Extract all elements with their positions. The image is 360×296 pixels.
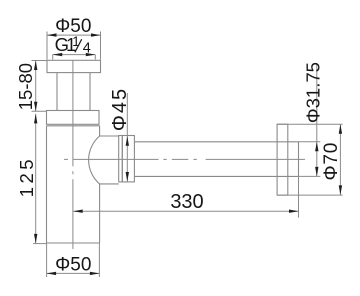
svg-text:125: 125 bbox=[16, 156, 37, 197]
nut (bottle top nut) bbox=[47, 111, 100, 125]
dim 15-80 ext lines bbox=[32, 61, 47, 112]
dim Phi45 line bbox=[126, 93, 128, 182]
wall flange bbox=[277, 124, 288, 195]
arrowheads Phi70 bbox=[339, 124, 342, 134]
dim G1-1/4 line bbox=[53, 55, 96, 60]
dim Phi31.75 ext lines bbox=[299, 142, 321, 177]
svg-text:Φ31.75: Φ31.75 bbox=[302, 62, 323, 123]
horizontal centerline bbox=[64, 158, 305, 160]
arrowheads Phi45 bbox=[126, 136, 129, 146]
threaded inlet pipe bbox=[57, 73, 90, 111]
dim 125 line bbox=[35, 114, 37, 244]
dim Phi70 line bbox=[339, 124, 341, 195]
bottle body bbox=[47, 126, 100, 243]
vertical centerline bbox=[72, 60, 74, 249]
horizontal pipe bbox=[134, 142, 298, 177]
dim Phi50 top ext lines bbox=[47, 32, 101, 60]
dim 330 line bbox=[73, 210, 298, 212]
dim Phi50 bottom ext lines bbox=[47, 243, 100, 277]
svg-text:15-80: 15-80 bbox=[15, 63, 36, 110]
dim Phi31.75 line bbox=[316, 64, 318, 176]
arrowheads Phi50 bottom bbox=[47, 272, 57, 275]
label G 1 1/4 bbox=[55, 34, 91, 57]
arrowheads 125 bbox=[34, 114, 37, 124]
outlet washer ring bbox=[119, 136, 123, 182]
dim 330 right ext line bbox=[298, 177, 300, 218]
dim Phi50 bottom line bbox=[47, 272, 100, 274]
svg-text:1: 1 bbox=[72, 34, 80, 49]
svg-text:4: 4 bbox=[83, 40, 91, 56]
arrowheads 330 bbox=[73, 210, 83, 213]
arrowheads Phi50 top bbox=[47, 33, 57, 36]
dim 15-80 line bbox=[35, 61, 37, 112]
arrowheads 15-80 bbox=[34, 61, 37, 71]
arrowheads Phi31.75 bbox=[315, 142, 318, 152]
dim Phi70 ext lines bbox=[277, 124, 343, 195]
outlet nut bbox=[122, 136, 134, 182]
flange (top slip plate) bbox=[47, 60, 101, 72]
dim Phi50 top line bbox=[47, 34, 101, 36]
arrowheads G1-1/4 bbox=[53, 53, 63, 56]
svg-text:Φ70: Φ70 bbox=[321, 142, 342, 181]
svg-text:330: 330 bbox=[170, 191, 203, 213]
svg-text:Φ45: Φ45 bbox=[109, 87, 131, 131]
dim 125 bottom ext line bbox=[33, 243, 47, 245]
outlet boss dome bbox=[89, 136, 119, 184]
svg-text:Φ50: Φ50 bbox=[55, 254, 91, 275]
